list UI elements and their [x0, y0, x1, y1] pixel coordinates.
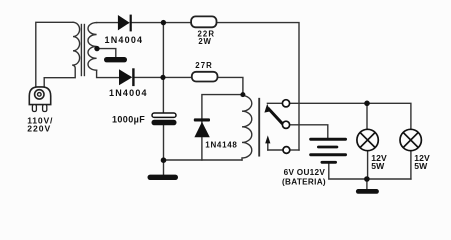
- svg-text:5W: 5W: [414, 161, 428, 171]
- svg-text:1000µF: 1000µF: [112, 115, 145, 125]
- svg-text:(BATERIA): (BATERIA): [282, 178, 326, 187]
- svg-text:5W: 5W: [371, 161, 385, 171]
- svg-text:1N4004: 1N4004: [105, 35, 144, 45]
- svg-text:1N4004: 1N4004: [109, 88, 148, 98]
- svg-text:27R: 27R: [195, 61, 213, 70]
- svg-text:2W: 2W: [198, 37, 211, 46]
- svg-text:220V: 220V: [27, 124, 51, 134]
- svg-text:6V OU12V: 6V OU12V: [284, 168, 326, 177]
- svg-text:1N4148: 1N4148: [205, 141, 237, 150]
